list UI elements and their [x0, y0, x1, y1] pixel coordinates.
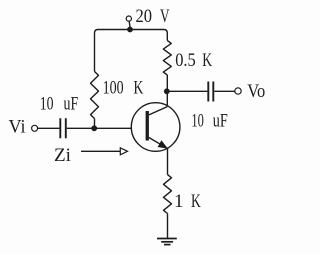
resistor R3 1 K zigzag — [164, 175, 172, 214]
ground bar 2 — [161, 241, 173, 243]
terminal supply open circle — [126, 16, 131, 21]
transistor Q1 collector diagonal — [149, 107, 167, 115]
wire input to base — [67, 127, 132, 129]
transistor Q1 circle — [131, 103, 180, 152]
svg-text:10: 10 — [191, 111, 204, 132]
svg-text:K: K — [202, 50, 212, 71]
wire emitter to ground — [167, 214, 169, 239]
Zi arrow open head — [120, 148, 127, 155]
label 20 V — [136, 6, 170, 27]
capacitor C1 10 uF input plates — [60, 118, 66, 138]
svg-text:Vi: Vi — [9, 117, 26, 138]
resistor R1 100 K zigzag — [91, 72, 99, 119]
svg-text:20: 20 — [136, 6, 153, 27]
svg-text:uF: uF — [213, 111, 228, 132]
node supply junction dot — [127, 27, 133, 33]
resistor R2 0.5 K zigzag — [163, 41, 171, 76]
node collector junction dot — [164, 88, 170, 94]
wire collector branch — [166, 75, 168, 107]
terminal Vo open circle — [235, 88, 241, 94]
svg-text:10: 10 — [40, 93, 54, 114]
svg-text:K: K — [191, 191, 201, 212]
transistor Q1 base bar — [146, 111, 149, 141]
wire emitter down — [167, 148, 169, 175]
Zi arrow line — [81, 150, 121, 152]
svg-text:100: 100 — [103, 77, 124, 98]
transistor Q1 emitter diagonal — [149, 138, 163, 146]
ground bar 3 — [164, 244, 171, 246]
label 1 K — [174, 191, 201, 212]
svg-text:K: K — [134, 77, 144, 98]
label 10 uF input — [40, 93, 78, 114]
node base junction dot — [91, 125, 97, 131]
wire output from collector node — [167, 90, 207, 92]
svg-text:V: V — [160, 6, 170, 27]
svg-text:Vo: Vo — [247, 81, 265, 102]
svg-text:0.5: 0.5 — [175, 50, 196, 71]
svg-text:uF: uF — [64, 93, 79, 114]
wire output to terminal — [214, 90, 235, 92]
svg-text:1: 1 — [174, 191, 184, 212]
label 100 K — [103, 77, 144, 98]
supply terminal stem — [128, 21, 131, 27]
capacitor C2 10 uF output plates — [208, 82, 213, 102]
svg-text:Zi: Zi — [54, 145, 71, 166]
label 10 uF output — [191, 111, 227, 132]
label 0.5 K — [175, 50, 212, 71]
wire base branch lower — [94, 119, 96, 129]
wire input left segment — [38, 127, 60, 129]
ground bar 1 — [157, 238, 177, 240]
transistor Q1 emitter arrowhead — [158, 141, 166, 148]
terminal Vi open circle — [32, 125, 38, 131]
wire top supply rail with left and right drops — [95, 30, 168, 72]
